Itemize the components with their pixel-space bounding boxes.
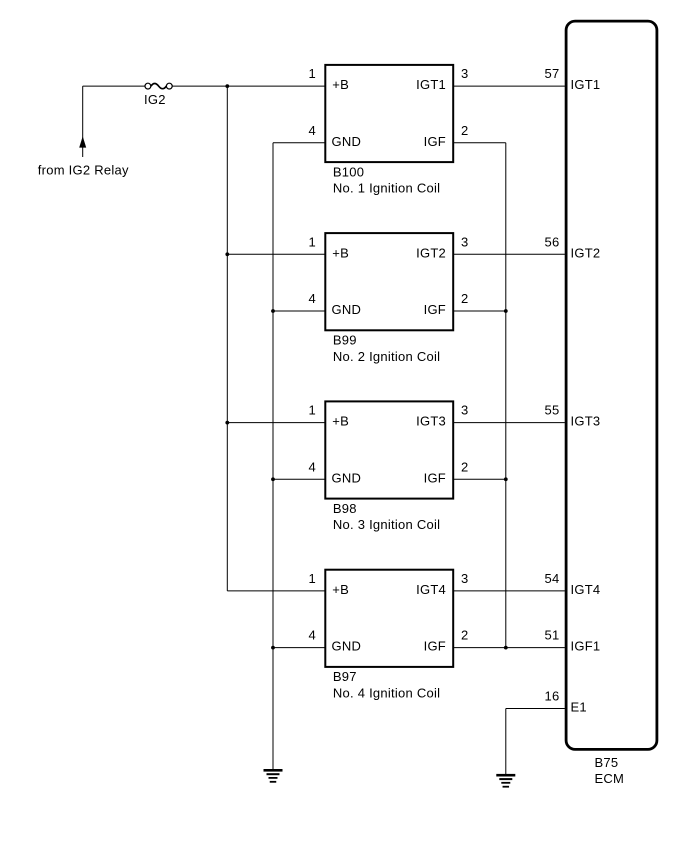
wire IGF coil 1: [453, 142, 506, 144]
ignition coil B97 box: [325, 570, 453, 667]
svg-text:+B: +B: [332, 77, 349, 92]
svg-text:from IG2 Relay: from IG2 Relay: [38, 162, 129, 177]
svg-text:B75: B75: [595, 755, 619, 770]
wire +B stub coil 4: [227, 590, 325, 592]
svg-text:2: 2: [461, 628, 468, 643]
svg-text:4: 4: [309, 628, 316, 643]
svg-text:IGT1: IGT1: [571, 77, 601, 92]
svg-text:2: 2: [461, 291, 468, 306]
ignition coil B98 box: [325, 401, 453, 498]
node junction IGF bus coil 2: [504, 309, 508, 313]
svg-text:GND: GND: [332, 134, 362, 149]
wire GND stub coil 2: [273, 310, 325, 312]
svg-text:3: 3: [461, 571, 468, 586]
svg-text:4: 4: [309, 123, 316, 138]
wire bus +B vertical: [226, 86, 228, 591]
svg-text:No. 3 Ignition Coil: No. 3 Ignition Coil: [333, 517, 440, 532]
svg-text:B98: B98: [333, 501, 357, 516]
svg-text:56: 56: [545, 234, 560, 249]
svg-text:IGT2: IGT2: [571, 245, 601, 260]
svg-text:2: 2: [461, 123, 468, 138]
svg-text:IGF1: IGF1: [571, 639, 601, 654]
node junction IGF bus coil 4: [504, 646, 508, 650]
wire GND stub coil 3: [273, 478, 325, 480]
svg-text:B97: B97: [333, 669, 357, 684]
svg-text:IGT1: IGT1: [416, 77, 446, 92]
svg-text:GND: GND: [332, 470, 362, 485]
svg-text:54: 54: [545, 571, 560, 586]
svg-text:B99: B99: [333, 333, 357, 348]
svg-text:51: 51: [545, 628, 560, 643]
ignition coil B100 box: [325, 65, 453, 162]
node junction IGF bus coil 3: [504, 477, 508, 481]
svg-text:E1: E1: [571, 700, 587, 715]
svg-text:IGT4: IGT4: [416, 582, 446, 597]
svg-text:No. 1 Ignition Coil: No. 1 Ignition Coil: [333, 181, 440, 196]
svg-text:IGT4: IGT4: [571, 582, 601, 597]
node junction +B bus coil 2: [225, 252, 229, 256]
wire IGF coil 3: [453, 478, 506, 480]
node junction +B bus coil 3: [225, 421, 229, 425]
svg-text:3: 3: [461, 66, 468, 81]
wire GND stub coil 1: [273, 142, 325, 144]
ground symbol left (coil GND bus): [264, 769, 283, 783]
node junction GND bus coil 2: [271, 309, 275, 313]
ignition coil B99 box: [325, 233, 453, 330]
wire IGF bus vertical: [505, 143, 507, 648]
svg-text:IGT3: IGT3: [416, 414, 446, 429]
svg-text:GND: GND: [332, 302, 362, 317]
svg-text:IGF: IGF: [424, 302, 446, 317]
svg-text:IG2: IG2: [144, 92, 166, 107]
arrowhead from IG2 Relay: [79, 136, 86, 147]
svg-text:+B: +B: [332, 414, 349, 429]
svg-text:55: 55: [545, 403, 560, 418]
node junction top feed / +B bus: [225, 84, 229, 88]
svg-text:+B: +B: [332, 582, 349, 597]
node junction GND bus coil 3: [271, 477, 275, 481]
wire +B stub coil 3: [227, 422, 325, 424]
svg-text:IGT3: IGT3: [571, 414, 601, 429]
svg-text:4: 4: [309, 459, 316, 474]
ECM B75 box: [566, 21, 657, 749]
wire IGT3 to ECM pin 55: [453, 422, 565, 424]
svg-text:1: 1: [309, 234, 316, 249]
svg-text:IGF: IGF: [424, 639, 446, 654]
svg-text:IGT2: IGT2: [416, 245, 446, 260]
svg-text:1: 1: [309, 571, 316, 586]
wire GND bus vertical: [272, 143, 274, 769]
svg-text:No. 4 Ignition Coil: No. 4 Ignition Coil: [333, 686, 440, 701]
wire IGT1 to ECM pin 57: [453, 85, 565, 87]
node junction GND bus coil 4: [271, 646, 275, 650]
wire IGF coil 2: [453, 310, 506, 312]
ground symbol right (E1): [496, 774, 515, 788]
fuse IG2: [145, 83, 172, 89]
svg-text:+B: +B: [332, 245, 349, 260]
svg-text:57: 57: [545, 66, 560, 81]
svg-text:1: 1: [309, 66, 316, 81]
svg-text:3: 3: [461, 234, 468, 249]
wire IGF coil 4 to ECM pin 51: [453, 647, 565, 649]
svg-text:ECM: ECM: [595, 771, 625, 786]
wire E1 drop to ground: [505, 709, 507, 775]
wire left drop to IG2 relay: [82, 86, 84, 157]
svg-text:No. 2 Ignition Coil: No. 2 Ignition Coil: [333, 349, 440, 364]
svg-text:2: 2: [461, 459, 468, 474]
wire IGT2 to ECM pin 56: [453, 253, 565, 255]
svg-text:4: 4: [309, 291, 316, 306]
svg-text:16: 16: [545, 689, 560, 704]
wire E1 horizontal: [506, 708, 565, 710]
wire GND stub coil 4: [273, 647, 325, 649]
svg-text:3: 3: [461, 403, 468, 418]
wire fuse IG2 to B100 +B: [172, 85, 325, 87]
wire IGT4 to ECM pin 54: [453, 590, 565, 592]
wire +B stub coil 2: [227, 253, 325, 255]
svg-text:IGF: IGF: [424, 134, 446, 149]
svg-text:1: 1: [309, 403, 316, 418]
wire relay riser to fuse IG2: [83, 85, 146, 87]
svg-text:GND: GND: [332, 639, 362, 654]
svg-text:B100: B100: [333, 164, 364, 179]
svg-text:IGF: IGF: [424, 470, 446, 485]
